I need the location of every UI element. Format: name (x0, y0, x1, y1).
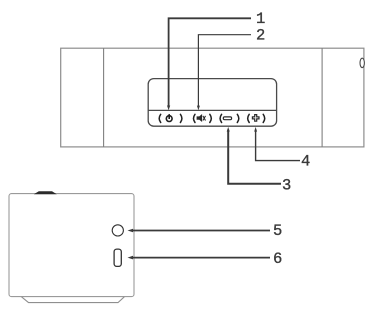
button 1 power icon (166, 114, 172, 121)
port 6 rounded rect (114, 249, 121, 266)
button 4 plus icon (252, 115, 259, 122)
panel separator line (148, 109, 276, 111)
button 5 circle (112, 225, 123, 236)
arrowhead 2 (197, 106, 200, 111)
leader line 4 (256, 130, 300, 161)
svg-text:3: 3 (282, 177, 291, 195)
button 3 minus icon (223, 117, 231, 120)
leader line 3 (228, 130, 281, 184)
leader line 1 (169, 18, 251, 107)
svg-text:4: 4 (301, 153, 310, 171)
arrowhead 6 (128, 256, 134, 260)
arrowhead 1 (167, 106, 170, 111)
button 2 mute-speaker icon (197, 114, 206, 122)
soundbar right divider (321, 48, 323, 147)
button 1 parens (159, 114, 182, 122)
side knob oval on right edge (360, 58, 364, 67)
button 3 parens (220, 114, 239, 122)
svg-text:5: 5 (273, 222, 282, 240)
control panel rounded rect (148, 79, 276, 127)
lid tab on cube top (34, 191, 57, 194)
cube speaker body (front view) (9, 194, 134, 297)
leader line 2 (198, 35, 251, 107)
arrowhead 3 (227, 127, 230, 132)
button 2 parens (194, 114, 212, 122)
leader line 6 (131, 257, 270, 259)
leader line 5 (131, 230, 270, 232)
arrowhead 5 (128, 229, 134, 233)
svg-text:6: 6 (273, 250, 282, 268)
button 4 parens (248, 114, 265, 122)
cube base foot (22, 297, 125, 303)
svg-text:2: 2 (256, 27, 265, 45)
svg-text:1: 1 (256, 10, 265, 28)
soundbar body (top view) (61, 48, 364, 147)
soundbar left divider (103, 48, 105, 147)
arrowhead 4 (254, 127, 257, 132)
